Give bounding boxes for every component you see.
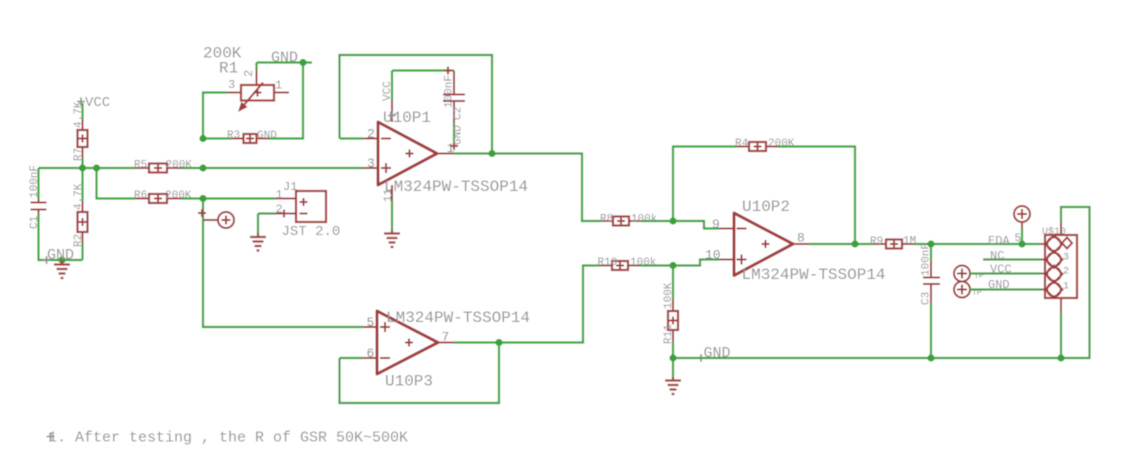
svg-text:1: 1: [276, 188, 283, 202]
potentiometer R1 200K: [203, 45, 289, 113]
wire R5 to U10P1 pin3: [181, 167, 363, 169]
svg-text:4.7K: 4.7K: [73, 183, 85, 210]
svg-text:2: 2: [242, 70, 256, 77]
resistor R6 200K horizontal: [134, 190, 192, 203]
wire C1 bottom to gnd row: [39, 213, 83, 260]
note text: [47, 430, 409, 447]
svg-text:5: 5: [1015, 233, 1022, 245]
wire U10P1 feedback loop: [340, 55, 493, 154]
wire R6 to J1 pin1: [181, 197, 275, 199]
resistor R4 200K horizontal: [735, 138, 795, 151]
svg-text:5: 5: [367, 315, 375, 330]
wire R10 to node: [640, 264, 673, 266]
svg-text:R11: R11: [663, 324, 675, 344]
svg-text:LM324PW-TSSOP14: LM324PW-TSSOP14: [386, 309, 530, 327]
connector J1 JST 2.0: [275, 180, 340, 240]
node gnd-left junction: [58, 256, 65, 263]
wire R4 feedback loop: [673, 147, 855, 245]
svg-text:R3: R3: [227, 130, 240, 142]
svg-text:VCC: VCC: [382, 81, 394, 101]
wire gnd stub below R11: [672, 358, 674, 377]
ground symbol pin11: [384, 230, 400, 247]
supply VCC label: [77, 95, 110, 111]
net label GND row: [970, 278, 1048, 292]
resistor R2 4.7K vertical: [73, 168, 88, 260]
node connector-gnd junction: [1057, 354, 1064, 361]
svg-text:VCC: VCC: [990, 263, 1012, 277]
svg-text:GND: GND: [257, 130, 277, 142]
svg-text:U10P3: U10P3: [385, 373, 433, 391]
wire U10P3 feedback loop: [340, 343, 500, 404]
wire U10P2 pin9: [673, 221, 719, 229]
ground GND label bottom: [697, 345, 731, 362]
wire U10P1 pin2: [340, 137, 364, 139]
node R11-gnd junction: [669, 354, 676, 361]
svg-text:100K: 100K: [663, 282, 675, 309]
wire C1 top: [37, 168, 39, 199]
resistor R5 200K horizontal: [134, 160, 192, 173]
capacitor C3 100nF vertical: [921, 243, 941, 358]
svg-text:C3: C3: [921, 292, 933, 305]
node B junction: [93, 164, 100, 171]
node C3 junction: [927, 240, 934, 247]
resistor R9 1M horizontal: [870, 236, 916, 249]
svg-text:R4: R4: [735, 138, 749, 150]
op-amp U10P1 pin4 VCC stub: [382, 71, 396, 123]
node A junction: [79, 164, 86, 171]
svg-text:2: 2: [367, 127, 375, 142]
testpoint circle-plus VCC: [954, 266, 984, 282]
testpoint circle-plus: [203, 212, 234, 228]
capacitor C1 100nF: [29, 165, 47, 229]
svg-text:GND: GND: [47, 247, 74, 264]
capacitor C2 100nF: [443, 67, 465, 151]
wire R9 to connector: [914, 243, 1041, 245]
wire U10P3 output: [453, 341, 499, 343]
wire U10P1 output: [453, 152, 492, 154]
svg-text:100k: 100k: [631, 214, 658, 226]
svg-text:8: 8: [797, 231, 805, 246]
op-amp U10P1 LM324PW-TSSOP14: [363, 109, 528, 196]
wire row A horizontal: [39, 167, 136, 169]
wire VCC loop to C2: [392, 69, 454, 71]
node R3-left junction: [199, 135, 206, 142]
wire U10P1 output to R8: [492, 154, 601, 222]
node R8-R4 junction: [669, 217, 676, 224]
resistor R10 100k horizontal: [598, 257, 657, 270]
wire pot pin2 to GND rail: [257, 63, 313, 71]
wire VCC to R7: [81, 103, 83, 119]
wire U10P3 output to R10: [499, 266, 600, 343]
svg-text:LM324PW-TSSOP14: LM324PW-TSSOP14: [384, 178, 528, 196]
op-amp U10P2 LM324PW-TSSOP14: [705, 198, 886, 284]
svg-text:3: 3: [367, 156, 375, 171]
wire branch down to U10P3 pin5: [203, 199, 363, 328]
svg-text:7: 7: [442, 330, 450, 345]
op-amp U10P1 pin11 gnd stub: [383, 185, 395, 230]
svg-text:GND: GND: [453, 125, 465, 145]
node R6-branch junction: [199, 195, 206, 202]
svg-text:100nF: 100nF: [29, 165, 41, 198]
node R10-R11 junction: [669, 262, 676, 269]
svg-text:100nF: 100nF: [921, 243, 933, 276]
net label VCC row: [970, 263, 1048, 277]
svg-text:GND: GND: [704, 345, 731, 362]
testpoint circle-plus GND: [954, 282, 982, 298]
svg-text:4.7K: 4.7K: [73, 101, 85, 128]
svg-text:1: 1: [1063, 282, 1069, 293]
wire output to R9: [855, 243, 874, 245]
svg-text:VCC: VCC: [85, 95, 110, 111]
wire gnd rail down to R3: [268, 63, 303, 139]
wire R8 to node: [641, 220, 673, 222]
ground symbol below R11: [665, 377, 681, 394]
op-amp U10P3 LM324PW-TSSOP14: [363, 309, 530, 391]
svg-text:200K: 200K: [768, 138, 795, 150]
svg-text:R1: R1: [219, 60, 238, 78]
svg-text:2: 2: [276, 203, 283, 217]
connector U$10 header: [1042, 226, 1077, 298]
wire step down to R6 row: [97, 168, 136, 199]
node EDA junction: [1018, 240, 1025, 247]
pin stub top of connector: [1060, 222, 1062, 235]
wire R7 to node A: [81, 158, 83, 168]
svg-text:C2: C2: [453, 107, 465, 120]
svg-text:R2: R2: [73, 234, 85, 247]
resistor R11 100K vertical: [663, 266, 678, 359]
svg-text:LM324PW-TSSOP14: LM324PW-TSSOP14: [742, 266, 886, 284]
svg-text:6: 6: [367, 346, 375, 361]
node pot-gnd junction: [299, 59, 306, 66]
svg-text:U10P2: U10P2: [742, 198, 790, 216]
svg-text:9: 9: [712, 217, 720, 232]
svg-text:R6: R6: [134, 190, 147, 202]
node C3-gnd junction: [927, 354, 934, 361]
svg-text:3: 3: [1063, 253, 1069, 264]
svg-text:200K: 200K: [166, 160, 193, 172]
svg-text:GND: GND: [988, 278, 1010, 292]
node U10P1 output junction: [488, 150, 495, 157]
node U10P2 output junction: [851, 240, 858, 247]
wire R3 left: [203, 137, 232, 139]
svg-text:R8: R8: [600, 214, 613, 226]
svg-text:J1: J1: [283, 180, 297, 194]
node U10P3 output junction: [495, 339, 502, 346]
wire U10P3 pin6: [340, 357, 364, 359]
svg-text:EDA: EDA: [988, 234, 1010, 248]
svg-text:3: 3: [228, 78, 235, 92]
svg-text:GND: GND: [271, 50, 298, 67]
wire J1 pin2 to ground: [258, 214, 275, 234]
svg-text:NC: NC: [990, 249, 1004, 263]
wire EDA stub to pad1: [1041, 243, 1048, 245]
ground symbol under J1: [250, 233, 266, 251]
wire bottom stub to gnd: [1060, 313, 1062, 358]
svg-text:2: 2: [1063, 267, 1069, 278]
resistor R8 100k horizontal: [600, 214, 658, 226]
node R5-pot junction: [199, 164, 206, 171]
wire U10P2 output: [809, 243, 855, 245]
resistor R7 4.7K vertical: [73, 101, 88, 161]
resistor R3 horizontal: [227, 130, 277, 143]
pin stub bottom of connector: [1060, 298, 1062, 313]
svg-text:11: 11: [383, 188, 395, 202]
ground GND left label: [43, 247, 75, 264]
svg-text:R10: R10: [598, 257, 618, 269]
wire connector wrap to gnd: [1061, 207, 1090, 358]
svg-text:JST 2.0: JST 2.0: [282, 224, 341, 240]
svg-text:200K: 200K: [165, 190, 192, 202]
testpoint cross mark: [198, 209, 206, 217]
svg-text:1. After testing , the R of GS: 1. After testing , the R of GSR 50K~500K: [48, 430, 408, 447]
svg-text:R9: R9: [870, 236, 883, 248]
testpoint circle-plus top: [1014, 206, 1030, 245]
ground GND label at pot: [271, 50, 298, 67]
wire pot pin3 down to R3 node: [203, 93, 227, 139]
svg-text:U10P1: U10P1: [383, 109, 431, 127]
svg-text:100nF: 100nF: [444, 75, 456, 108]
ground symbol left: [54, 260, 70, 278]
svg-text:10: 10: [705, 248, 721, 263]
wire GND bottom rail: [673, 357, 1061, 359]
svg-text:1M: 1M: [903, 236, 916, 248]
svg-text:100k: 100k: [630, 257, 657, 269]
net label EDA: [988, 234, 1010, 248]
wire U10P2 pin10: [673, 260, 719, 266]
net label NC row: [983, 249, 1048, 263]
svg-text:R5: R5: [134, 160, 147, 172]
svg-text:1: 1: [275, 79, 282, 93]
